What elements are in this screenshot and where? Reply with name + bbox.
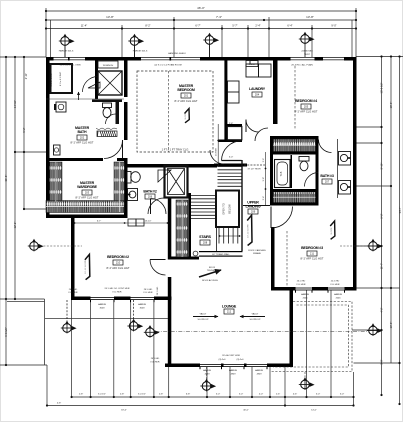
toilet bath3 (299, 157, 309, 171)
door arc WIC (83, 77, 99, 93)
svg-text:204: 204 (255, 93, 260, 97)
svg-text:208: 208 (203, 241, 208, 245)
svg-text:LVL HDR: LVL HDR (144, 292, 153, 294)
svg-text:5'-0": 5'-0" (340, 394, 345, 396)
svg-text:26'-0 HD: 26'-0 HD (144, 289, 153, 291)
svg-text:15 RSR: 15 RSR (216, 148, 218, 156)
svg-text:9'-0": 9'-0" (331, 24, 336, 28)
door arc master bedroom (210, 150, 224, 164)
fan labels top (59, 50, 313, 57)
svg-text:HANGING SHELF: HANGING SHELF (168, 52, 187, 55)
svg-text:6'-7": 6'-7" (195, 24, 200, 28)
laundry cabinet (228, 81, 240, 103)
svg-text:26'-0 HD x ALL PLAIN: 26'-0 HD x ALL PLAIN (291, 64, 313, 67)
svg-text:2'-8": 2'-8" (229, 123, 234, 125)
svg-text:2'-8": 2'-8" (159, 394, 164, 396)
svg-text:5'-0": 5'-0" (316, 394, 321, 396)
svg-text:HARDIE: HARDIE (229, 369, 238, 372)
small arrow WIC (78, 92, 80, 100)
svg-text:HARDIE: HARDIE (255, 369, 264, 372)
texts above/below windows (69, 281, 343, 376)
svg-text:4'-2": 4'-2" (380, 307, 384, 312)
svg-text:9'-2": 9'-2" (22, 127, 26, 132)
svg-text:26'-0 HD: 26'-0 HD (151, 358, 160, 360)
bench with X (98, 71, 122, 95)
svg-text:2'-8": 2'-8" (79, 394, 84, 396)
wardrobe shelf rotated texts (51, 73, 301, 231)
svg-text:1'-3 1/2": 1'-3 1/2" (4, 327, 8, 337)
svg-text:ROOF CARCASS: ROOF CARCASS (248, 249, 266, 252)
svg-text:BEDROOM #2: BEDROOM #2 (107, 255, 129, 259)
svg-text:8'-1" AFF CLG HGT: 8'-1" AFF CLG HGT (71, 141, 94, 145)
dimension text right (rotated) (380, 82, 402, 364)
svg-text:(3)-2x6: (3)-2x6 (237, 359, 245, 361)
svg-text:LOUNGE: LOUNGE (222, 305, 237, 309)
rail upper landing (243, 205, 270, 207)
vanity master bath scribble (96, 128, 117, 137)
fan symbol top2 (128, 34, 144, 47)
svg-text:13'-6 1/2": 13'-6 1/2" (380, 82, 384, 93)
svg-text:18'-6": 18'-6" (121, 410, 127, 412)
hatch wardrobe left (50, 162, 63, 202)
fan symbol bottom2 (127, 319, 143, 332)
dimension line top row A (46, 10, 356, 12)
dimension line top row B (46, 19, 356, 21)
svg-text:5'-10": 5'-10" (380, 163, 384, 170)
dimension line left col2 (14, 57, 16, 299)
door arc master bath (104, 140, 123, 159)
svg-text:211: 211 (310, 252, 315, 256)
stairs flight C treads (219, 228, 238, 244)
svg-text:11'-7": 11'-7" (380, 263, 384, 269)
svg-text:VAULT: VAULT (252, 313, 259, 316)
svg-text:205: 205 (304, 105, 309, 109)
svg-text:207: 207 (325, 180, 330, 184)
svg-text:31'-6": 31'-6" (4, 175, 8, 182)
svg-text:BELOW: BELOW (228, 204, 232, 214)
svg-text:BEDROOM #4: BEDROOM #4 (295, 99, 317, 103)
dimension text bottom (57, 394, 345, 412)
fan symbol bottom1 (61, 321, 77, 334)
slope arrow master bedroom (185, 109, 190, 123)
window jamb ticks (90, 291, 345, 370)
dimension line bottom row2 (47, 405, 354, 407)
svg-text:16'-9": 16'-9" (389, 102, 393, 109)
svg-text:BATH #3: BATH #3 (320, 174, 334, 178)
wall lounge west lower (168, 277, 172, 364)
svg-text:40'-0": 40'-0" (243, 410, 249, 412)
extension lines left (0, 56, 46, 58)
svg-text:HARDIE: HARDIE (301, 293, 310, 296)
svg-text:SLOPE UP: SLOPE UP (198, 319, 209, 321)
slope arrow upper landing (247, 215, 252, 245)
wall closet4 bottom (270, 152, 319, 155)
svg-text:26'-0 HD: 26'-0 HD (297, 281, 306, 283)
svg-text:5'-7": 5'-7" (232, 24, 237, 28)
door arc bedroom2 entry (148, 198, 164, 214)
svg-text:212: 212 (227, 310, 232, 314)
dimension line left col3 (23, 57, 25, 209)
svg-text:3'-3": 3'-3" (380, 359, 384, 364)
wall master bedroom east (224, 60, 227, 140)
window top w2 (141, 56, 200, 59)
svg-text:LANDING: LANDING (246, 205, 261, 209)
svg-text:26'-0 HD LVL CONT HDR: 26'-0 HD LVL CONT HDR (105, 288, 130, 290)
svg-text:LAUNDRY: LAUNDRY (249, 87, 266, 91)
washer dryer (246, 61, 271, 78)
svg-text:4'-8": 4'-8" (57, 403, 62, 405)
svg-text:201: 201 (184, 94, 189, 98)
svg-text:HARDIE: HARDIE (334, 293, 343, 296)
svg-text:8'-1" AFF CLG HGT: 8'-1" AFF CLG HGT (175, 99, 198, 103)
wall laundry east (273, 60, 278, 124)
svg-text:14'-0": 14'-0" (311, 410, 317, 412)
svg-text:22'-6 HD: 22'-6 HD (331, 281, 340, 283)
svg-text:6'-7": 6'-7" (97, 221, 102, 223)
svg-text:LVL HDR: LVL HDR (69, 292, 78, 294)
dimension text left (rotated) (4, 73, 28, 337)
sink WIC left (56, 102, 66, 112)
door arc bath3 north (319, 140, 332, 153)
svg-text:SLOPE: SLOPE (185, 112, 187, 120)
svg-text:HARDIE SDLS: HARDIE SDLS (59, 50, 74, 53)
toilet WIC (103, 103, 112, 118)
svg-text:2'-6": 2'-6" (276, 394, 281, 396)
dimension line right col2 (390, 57, 392, 364)
svg-text:BATH: BATH (78, 130, 88, 134)
texts below top wall (59, 64, 313, 67)
dim line bedroom2 top (74, 222, 168, 224)
svg-text:4949: 4949 (205, 374, 211, 376)
dimension line left col1 (5, 57, 7, 365)
wall light wardrobe (54, 145, 61, 155)
door arc laundry (246, 120, 259, 133)
svg-text:2'-4": 2'-4" (263, 196, 265, 201)
slope arrow side texts (85, 112, 333, 274)
svg-text:2'-8": 2'-8" (120, 394, 125, 396)
window lounge triple (200, 363, 267, 366)
window bedroom2 b2 (131, 296, 155, 299)
fan symbol bottom4 (200, 379, 216, 392)
dim line upper landing (265, 152, 267, 205)
window bedroom3 b1 (296, 287, 313, 290)
svg-text:6'-8": 6'-8" (186, 394, 191, 396)
svg-text:3048: 3048 (100, 308, 106, 310)
wall closet3 top (270, 189, 319, 192)
wall master bath/wardrobe divider (46, 158, 103, 161)
svg-text:W BENCH: W BENCH (103, 65, 114, 67)
svg-text:4'-6": 4'-6" (293, 394, 298, 396)
svg-text:HARDIE: HARDIE (203, 369, 212, 372)
fan symbol top4 (299, 32, 315, 45)
tray ceiling master bedroom (137, 71, 213, 152)
wall bedroom2 bottom segs (71, 297, 91, 301)
hatch linen strip (176, 200, 188, 257)
stairwell west line below landing (216, 227, 218, 251)
extension lines bottom windows (46, 365, 48, 406)
door wedge hall (158, 170, 171, 182)
svg-text:STAIRS: STAIRS (199, 235, 212, 239)
WIC closet casework (51, 64, 73, 93)
fan symbol bottom3 (144, 325, 160, 338)
hatch closet3 (273, 192, 316, 203)
fan symbol top3 (203, 33, 219, 46)
left roof lines (44, 299, 46, 365)
svg-text:HARDIE: HARDIE (138, 303, 147, 306)
fan symbol right bed3 (367, 239, 383, 252)
svg-text:8'-1" AFF CLG HGT: 8'-1" AFF CLG HGT (295, 110, 318, 114)
svg-text:26'-0 HD: 26'-0 HD (157, 286, 159, 295)
svg-text:1 FT x 1 FT TRAY CLG: 1 FT x 1 FT TRAY CLG (162, 148, 189, 152)
wall WIC bench west (95, 60, 98, 99)
svg-text:5'-8": 5'-8" (263, 177, 265, 182)
bath north line (46, 98, 124, 100)
fan symbol right deck (367, 323, 383, 336)
stairs flight A treads (191, 196, 216, 219)
fan symbol top1 (59, 34, 75, 47)
svg-text:13'-8": 13'-8" (106, 15, 114, 19)
wall niche bottom (219, 140, 243, 143)
svg-text:5'-0 1/2": 5'-0 1/2" (138, 394, 146, 396)
svg-text:LVL HDR: LVL HDR (113, 292, 122, 294)
dashed ridge bedroom3 (286, 231, 288, 286)
svg-text:2'-4": 2'-4" (255, 24, 260, 28)
closet rods (46, 145, 316, 257)
vanity bath3 sinks (338, 139, 351, 198)
svg-text:9'-0 x 4'-6 WIC: 9'-0 x 4'-6 WIC (60, 71, 62, 86)
svg-text:2646: 2646 (303, 298, 309, 300)
svg-text:ROOF: ROOF (209, 267, 216, 269)
tub bath3 (275, 160, 291, 188)
svg-text:4949: 4949 (231, 374, 237, 376)
slope arrow bedroom3 (330, 221, 335, 239)
hatch wardrobe right (114, 162, 125, 212)
hatch wardrobe bottom (46, 201, 124, 213)
stair headroom dashed (244, 164, 265, 166)
svg-text:2646: 2646 (336, 298, 342, 300)
wall closets west (270, 136, 273, 206)
bench tag (98, 61, 118, 68)
door arc bedroom4 (255, 128, 268, 141)
svg-text:SLOPE: SLOPE (331, 227, 333, 235)
svg-text:12'-2": 12'-2" (13, 222, 17, 229)
dashed window centerlines (40, 246, 367, 380)
svg-text:209: 209 (251, 210, 256, 214)
svg-text:VAULT: VAULT (200, 313, 207, 316)
dimension text top (81, 6, 337, 28)
svg-text:VENT: VENT (304, 54, 310, 56)
svg-text:14'-10": 14'-10" (13, 100, 17, 108)
dimension line right col3 (399, 57, 401, 405)
stairwell east wall (241, 160, 243, 251)
wall exterior left upper (46, 57, 50, 218)
svg-text:7'-3": 7'-3" (216, 15, 222, 19)
svg-text:19'-11 SLOPE: 19'-11 SLOPE (248, 224, 250, 238)
svg-text:10'-9": 10'-9" (389, 322, 393, 329)
svg-text:19'-11 SLOPE: 19'-11 SLOPE (85, 260, 87, 274)
svg-text:OPEN TO: OPEN TO (222, 203, 226, 215)
wall bedroom3 bottom segs (271, 287, 296, 291)
svg-text:46'-0": 46'-0" (197, 6, 205, 10)
wall exterior right (353, 57, 357, 290)
shelf tag laundry wall (246, 61, 258, 67)
wall bedroom2 west (71, 218, 75, 300)
svg-text:LVL HDR: LVL HDR (151, 362, 160, 364)
wall lounge west upper (168, 198, 172, 260)
svg-text:SLOPE UP: SLOPE UP (250, 319, 261, 321)
svg-text:(3)-2x6: (3)-2x6 (219, 359, 227, 361)
toilet room east wall (116, 102, 120, 124)
hatch closet4 (273, 139, 316, 152)
svg-text:6'-4": 6'-4" (287, 24, 292, 28)
svg-text:BATH #2: BATH #2 (143, 190, 157, 194)
wall bath3 stub (291, 155, 293, 188)
svg-text:TUB: TUB (280, 171, 283, 176)
svg-text:46" TREAD WALL: 46" TREAD WALL (212, 253, 230, 256)
window top w4 (323, 56, 344, 59)
door arc bath2 (151, 199, 167, 215)
wall bedroom3 west (271, 227, 275, 290)
svg-text:HARDIE: HARDIE (98, 303, 107, 306)
fan symbol left (28, 239, 44, 252)
wall wardrobe bottom (46, 215, 127, 219)
wall stairs top (214, 164, 247, 167)
svg-text:4949: 4949 (257, 374, 263, 376)
door arc bedroom2 (150, 260, 166, 276)
wall stair west (189, 193, 192, 257)
svg-text:203: 203 (85, 191, 90, 195)
svg-text:(2) 9'-0 x 5'-0 FOAM ROOM: (2) 9'-0 x 5'-0 FOAM ROOM (154, 64, 181, 67)
svg-text:8'-2": 8'-2" (145, 24, 150, 28)
svg-text:3048: 3048 (140, 308, 146, 310)
wall below stair bar (168, 257, 199, 260)
svg-text:BEDROOM: BEDROOM (177, 88, 195, 92)
sink bath2 (128, 189, 138, 201)
svg-text:24X36 SBB: 24X36 SBB (301, 51, 313, 53)
window bedroom2 b1 (91, 296, 115, 299)
fan symbol bottom5 (299, 377, 315, 390)
svg-text:3'-0": 3'-0" (229, 157, 234, 159)
wall master suite east (124, 60, 128, 97)
door arc bedroom3 entry (271, 207, 293, 229)
window top w3 (291, 56, 315, 59)
stairs flight B treads (218, 167, 242, 187)
elevator shaft (165, 166, 188, 198)
svg-text:2'-11": 2'-11" (24, 73, 28, 79)
vault arrows (193, 316, 265, 318)
wall bath2 top (124, 164, 217, 168)
svg-text:26'-0 HD: 26'-0 HD (69, 289, 78, 291)
svg-text:206: 206 (148, 195, 153, 199)
svg-text:5'-0": 5'-0" (216, 394, 221, 396)
svg-text:5'-0": 5'-0" (239, 394, 244, 396)
wall laundry south (225, 124, 242, 127)
door arc toilet room (106, 114, 116, 124)
svg-text:16'-0 WD x ALL OWN: 16'-0 WD x ALL OWN (59, 64, 80, 67)
door arc bath3 (305, 173, 319, 187)
svg-text:4'-0": 4'-0" (259, 394, 264, 396)
svg-text:WARDROBE: WARDROBE (77, 185, 98, 189)
extension lines top (45, 8, 47, 57)
stairs landing box (216, 191, 239, 228)
svg-text:8'-1" AFF CLG HGT: 8'-1" AFF CLG HGT (301, 257, 324, 261)
svg-text:HARDIE SDLS: HARDIE SDLS (133, 50, 148, 53)
svg-text:FRAME: FRAME (253, 252, 261, 255)
toilet bath2 (127, 172, 140, 184)
wall below bench (92, 100, 122, 103)
stair width arrow (219, 235, 240, 237)
wall lounge bottom segs (165, 364, 200, 368)
svg-text:8'-1" AFF CLG HGT: 8'-1" AFF CLG HGT (76, 196, 99, 200)
wall closet4 top (270, 136, 319, 139)
svg-text:210: 210 (116, 261, 121, 265)
svg-text:2'-6": 2'-6" (263, 158, 265, 163)
svg-text:8'-1" AFF CLG HGT: 8'-1" AFF CLG HGT (107, 266, 130, 270)
dashed ridge bedroom4 (294, 66, 296, 130)
svg-text:ROOF ACCESS: ROOF ACCESS (202, 279, 218, 282)
svg-text:34'-7": 34'-7" (398, 207, 402, 214)
extension lines right (356, 56, 403, 58)
svg-text:LVL HDR: LVL HDR (297, 284, 306, 286)
svg-text:26'-0&CONT HDR: 26'-0&CONT HDR (222, 355, 240, 357)
deck dashed outline outer (270, 302, 352, 372)
deck dashed outline inner (273, 305, 349, 367)
svg-text:11'-4": 11'-4" (81, 24, 87, 28)
dim line stairs west (217, 124, 219, 166)
wall lounge east (290, 287, 294, 367)
svg-text:37 1/2" HIGH: 37 1/2" HIGH (248, 169, 261, 171)
wall exterior top segments (46, 57, 54, 61)
wall closet3 bottom (270, 203, 319, 206)
svg-text:LVL HDR: LVL HDR (331, 284, 340, 286)
svg-text:202: 202 (80, 136, 85, 140)
svg-text:TRUSSES: TRUSSES (207, 270, 218, 272)
wall stair bottom bar (199, 251, 243, 252)
door wedge WIC (88, 82, 100, 88)
roof access arrow (199, 270, 221, 277)
slope arrow bedroom2 (85, 254, 90, 279)
bedroom2 closet boxes (128, 219, 144, 226)
svg-text:5'-2": 5'-2" (380, 213, 384, 218)
window top w1 (54, 56, 86, 59)
svg-text:13'-8": 13'-8" (306, 15, 314, 19)
svg-text:13'-10": 13'-10" (145, 221, 152, 223)
wall closets east (316, 136, 319, 206)
dimension line bottom row1 (72, 396, 354, 398)
dimension line right col1 (381, 57, 383, 396)
window bedroom3 b2 (328, 287, 345, 290)
stair door leaf (222, 160, 242, 162)
dimension line top row C (46, 28, 356, 30)
niche box (227, 127, 242, 140)
svg-text:5'-0 1/2": 5'-0 1/2" (98, 394, 106, 396)
svg-text:BEDROOM #3: BEDROOM #3 (301, 246, 323, 250)
